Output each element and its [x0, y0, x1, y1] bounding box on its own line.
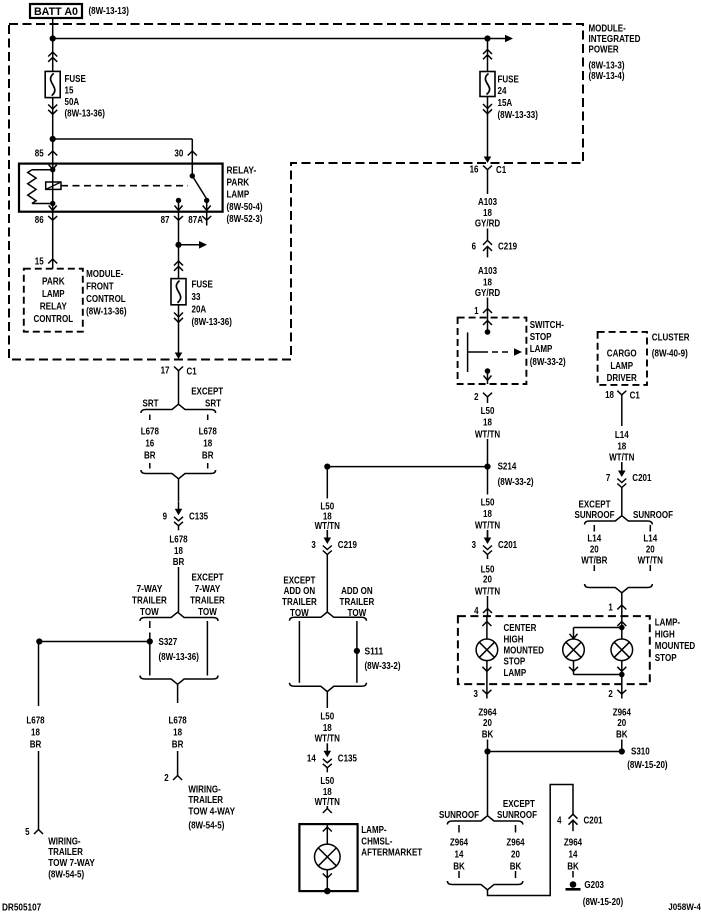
svg-text:TOW: TOW — [140, 607, 159, 618]
svg-text:MODULE-: MODULE- — [589, 24, 626, 35]
svg-text:LAMP: LAMP — [504, 668, 527, 679]
svg-text:GY/RD: GY/RD — [475, 288, 500, 299]
svg-text:18: 18 — [173, 728, 182, 739]
svg-text:C135: C135 — [189, 511, 208, 522]
svg-text:SRT: SRT — [143, 399, 159, 410]
svg-text:(8W-40-9): (8W-40-9) — [652, 348, 688, 359]
svg-text:7-WAY: 7-WAY — [195, 584, 221, 595]
svg-text:FUSE: FUSE — [498, 75, 520, 86]
svg-text:Z964: Z964 — [564, 838, 583, 849]
svg-text:MOUNTED: MOUNTED — [504, 646, 544, 657]
svg-text:LAMP-: LAMP- — [361, 825, 386, 836]
svg-text:BR: BR — [173, 557, 185, 568]
svg-text:18: 18 — [483, 277, 492, 288]
svg-text:2: 2 — [608, 689, 613, 700]
svg-text:SUNROOF: SUNROOF — [633, 510, 673, 521]
svg-text:STOP: STOP — [655, 653, 677, 664]
svg-text:BK: BK — [616, 730, 628, 741]
svg-text:14: 14 — [569, 850, 578, 861]
svg-text:(8W-33-2): (8W-33-2) — [530, 357, 566, 368]
svg-text:TOW 7-WAY: TOW 7-WAY — [48, 858, 95, 869]
svg-text:18: 18 — [203, 439, 212, 450]
svg-text:BK: BK — [482, 730, 494, 741]
svg-text:G203: G203 — [584, 880, 604, 891]
svg-text:LAMP: LAMP — [42, 289, 65, 300]
svg-text:14: 14 — [307, 753, 316, 764]
svg-text:4: 4 — [557, 815, 562, 826]
svg-text:(8W-54-5): (8W-54-5) — [188, 820, 224, 831]
svg-text:(8W-15-20): (8W-15-20) — [627, 760, 667, 771]
svg-text:16: 16 — [470, 165, 479, 176]
svg-text:C219: C219 — [338, 540, 357, 551]
svg-text:TRAILER: TRAILER — [188, 795, 223, 806]
svg-text:7: 7 — [606, 473, 611, 484]
svg-text:SRT: SRT — [205, 399, 221, 410]
svg-text:EXCEPT: EXCEPT — [579, 499, 611, 510]
svg-text:L50: L50 — [481, 497, 495, 508]
svg-text:18: 18 — [483, 418, 492, 429]
svg-text:WT/TN: WT/TN — [475, 586, 500, 597]
svg-text:24: 24 — [498, 86, 507, 97]
svg-text:L14: L14 — [615, 430, 629, 441]
svg-text:CARGO: CARGO — [607, 349, 637, 360]
svg-text:18: 18 — [483, 509, 492, 520]
svg-text:C201: C201 — [632, 473, 651, 484]
svg-text:18: 18 — [483, 208, 492, 219]
svg-text:5: 5 — [25, 827, 30, 838]
svg-text:CHMSL-: CHMSL- — [361, 836, 392, 847]
svg-text:L50: L50 — [320, 712, 334, 723]
svg-text:(8W-13-33): (8W-13-33) — [498, 110, 538, 121]
svg-text:DRIVER: DRIVER — [607, 373, 638, 384]
svg-text:87: 87 — [161, 215, 170, 226]
svg-text:3: 3 — [472, 540, 477, 551]
svg-text:LAMP: LAMP — [530, 344, 553, 355]
svg-text:18: 18 — [323, 723, 332, 734]
svg-text:LAMP-: LAMP- — [655, 618, 680, 629]
svg-text:BK: BK — [510, 862, 522, 873]
svg-text:SUNROOF: SUNROOF — [575, 510, 615, 521]
svg-text:MOUNTED: MOUNTED — [655, 641, 695, 652]
svg-text:TRAILER: TRAILER — [48, 847, 83, 858]
svg-text:L14: L14 — [643, 533, 657, 544]
svg-text:WT/BR: WT/BR — [581, 555, 608, 566]
svg-text:RELAY: RELAY — [40, 302, 67, 313]
svg-text:S111: S111 — [365, 647, 384, 658]
svg-text:A103: A103 — [478, 197, 497, 208]
svg-text:20: 20 — [646, 544, 655, 555]
svg-text:EXCEPT: EXCEPT — [192, 573, 224, 584]
svg-text:CENTER: CENTER — [504, 623, 538, 634]
svg-text:Z964: Z964 — [450, 838, 469, 849]
svg-text:1: 1 — [474, 306, 479, 317]
svg-text:ADD ON: ADD ON — [284, 586, 316, 597]
svg-text:(8W-50-4): (8W-50-4) — [227, 202, 263, 213]
svg-text:HIGH: HIGH — [504, 635, 524, 646]
svg-text:20: 20 — [617, 718, 626, 729]
svg-text:FRONT: FRONT — [86, 282, 114, 293]
svg-text:20: 20 — [483, 575, 492, 586]
svg-text:LAMP: LAMP — [610, 361, 633, 372]
svg-text:50A: 50A — [65, 97, 80, 108]
svg-text:WT/TN: WT/TN — [475, 521, 500, 532]
svg-text:18: 18 — [31, 728, 40, 739]
svg-text:BK: BK — [453, 862, 465, 873]
svg-text:(8W-13-36): (8W-13-36) — [65, 109, 105, 120]
svg-text:L678: L678 — [199, 427, 218, 438]
svg-text:C219: C219 — [498, 242, 517, 253]
svg-text:SWITCH-: SWITCH- — [530, 320, 564, 331]
svg-text:18: 18 — [605, 390, 614, 401]
svg-text:BATT A0: BATT A0 — [34, 6, 78, 18]
svg-text:20: 20 — [590, 544, 599, 555]
svg-text:L50: L50 — [320, 776, 334, 787]
svg-text:86: 86 — [35, 215, 44, 226]
svg-text:15: 15 — [35, 257, 44, 268]
svg-text:20: 20 — [511, 850, 520, 861]
svg-text:(8W-13-36): (8W-13-36) — [86, 307, 126, 318]
svg-text:AFTERMARKET: AFTERMARKET — [361, 848, 422, 859]
svg-text:(8W-54-5): (8W-54-5) — [48, 869, 84, 880]
svg-text:(8W-13-36): (8W-13-36) — [159, 652, 199, 663]
svg-text:TOW 4-WAY: TOW 4-WAY — [188, 807, 235, 818]
svg-text:C135: C135 — [338, 753, 357, 764]
svg-text:WT/TN: WT/TN — [475, 429, 500, 440]
svg-text:2: 2 — [164, 773, 169, 784]
svg-text:GY/RD: GY/RD — [475, 219, 500, 230]
svg-text:CLUSTER: CLUSTER — [652, 333, 690, 344]
svg-text:15: 15 — [65, 86, 74, 97]
svg-text:Z964: Z964 — [478, 708, 497, 719]
svg-text:L14: L14 — [587, 533, 601, 544]
svg-text:(8W-13-3): (8W-13-3) — [589, 61, 625, 72]
svg-text:SUNROOF: SUNROOF — [497, 810, 537, 821]
svg-text:WT/TN: WT/TN — [609, 453, 634, 464]
svg-text:(8W-13-4): (8W-13-4) — [589, 71, 625, 82]
svg-text:TRAILER: TRAILER — [190, 596, 225, 607]
svg-text:(8W-52-3): (8W-52-3) — [227, 214, 263, 225]
svg-text:BK: BK — [567, 862, 579, 873]
svg-text:Z964: Z964 — [613, 708, 632, 719]
svg-text:STOP: STOP — [530, 332, 552, 343]
svg-text:L50: L50 — [481, 406, 495, 417]
svg-text:3: 3 — [474, 689, 479, 700]
svg-text:C1: C1 — [187, 367, 198, 378]
svg-text:BR: BR — [144, 451, 156, 462]
svg-text:WT/TN: WT/TN — [638, 555, 663, 566]
svg-text:EXCEPT: EXCEPT — [191, 387, 223, 398]
svg-text:C201: C201 — [584, 815, 603, 826]
svg-text:C1: C1 — [630, 391, 641, 402]
svg-text:2: 2 — [474, 392, 479, 403]
svg-text:(8W-33-2): (8W-33-2) — [498, 477, 534, 488]
svg-text:L678: L678 — [169, 716, 188, 727]
svg-text:J058W-4: J058W-4 — [668, 902, 701, 912]
svg-text:TRAILER: TRAILER — [340, 597, 375, 608]
svg-text:TRAILER: TRAILER — [282, 597, 317, 608]
svg-text:MODULE-: MODULE- — [86, 269, 123, 280]
svg-text:18: 18 — [174, 546, 183, 557]
svg-text:(8W-15-20): (8W-15-20) — [583, 897, 623, 908]
svg-text:7-WAY: 7-WAY — [137, 584, 163, 595]
svg-text:WT/TN: WT/TN — [315, 734, 340, 745]
svg-text:CONTROL: CONTROL — [34, 314, 74, 325]
svg-text:3: 3 — [311, 540, 316, 551]
svg-text:16: 16 — [145, 439, 154, 450]
svg-text:15A: 15A — [498, 98, 513, 109]
svg-text:17: 17 — [161, 366, 170, 377]
svg-text:(8W-33-2): (8W-33-2) — [365, 661, 401, 672]
svg-text:85: 85 — [35, 149, 44, 160]
svg-text:BR: BR — [172, 740, 184, 751]
svg-text:(8W-13-13): (8W-13-13) — [89, 6, 129, 17]
svg-text:Z964: Z964 — [506, 838, 525, 849]
svg-text:L678: L678 — [141, 427, 160, 438]
svg-text:S214: S214 — [498, 462, 517, 473]
svg-text:FUSE: FUSE — [192, 280, 214, 291]
svg-text:TOW: TOW — [198, 607, 217, 618]
svg-text:BR: BR — [30, 740, 42, 751]
svg-text:WIRING-: WIRING- — [48, 836, 80, 847]
svg-text:BR: BR — [202, 451, 214, 462]
svg-text:L678: L678 — [26, 716, 45, 727]
svg-text:WIRING-: WIRING- — [188, 784, 220, 795]
svg-text:S327: S327 — [159, 637, 178, 648]
svg-text:PARK: PARK — [42, 277, 65, 288]
svg-text:INTEGRATED: INTEGRATED — [589, 34, 641, 45]
svg-text:(8W-13-36): (8W-13-36) — [192, 317, 232, 328]
svg-text:HIGH: HIGH — [655, 629, 675, 640]
svg-text:RELAY-: RELAY- — [227, 166, 257, 177]
svg-text:30: 30 — [174, 149, 183, 160]
svg-text:C1: C1 — [496, 165, 507, 176]
svg-text:9: 9 — [163, 511, 168, 522]
svg-text:POWER: POWER — [589, 45, 620, 56]
svg-text:DR505107: DR505107 — [2, 902, 42, 913]
svg-text:87A: 87A — [188, 215, 203, 226]
svg-text:LAMP: LAMP — [227, 190, 250, 201]
svg-text:1: 1 — [608, 603, 613, 614]
svg-text:18: 18 — [617, 442, 626, 453]
svg-text:TRAILER: TRAILER — [132, 596, 167, 607]
svg-text:14: 14 — [455, 850, 464, 861]
svg-text:20: 20 — [483, 718, 492, 729]
svg-text:33: 33 — [192, 292, 201, 303]
svg-text:20A: 20A — [192, 305, 207, 316]
svg-text:L678: L678 — [169, 535, 188, 546]
svg-text:EXCEPT: EXCEPT — [503, 799, 535, 810]
svg-text:L50: L50 — [481, 564, 495, 575]
svg-text:ADD ON: ADD ON — [341, 586, 373, 597]
svg-text:CONTROL: CONTROL — [86, 294, 126, 305]
svg-text:SUNROOF: SUNROOF — [439, 810, 479, 821]
svg-text:A103: A103 — [478, 266, 497, 277]
svg-text:C201: C201 — [498, 540, 517, 551]
svg-text:6: 6 — [472, 242, 477, 253]
svg-text:FUSE: FUSE — [65, 74, 87, 85]
svg-text:PARK: PARK — [227, 178, 250, 189]
svg-text:STOP: STOP — [504, 657, 526, 668]
svg-text:S310: S310 — [631, 747, 650, 758]
